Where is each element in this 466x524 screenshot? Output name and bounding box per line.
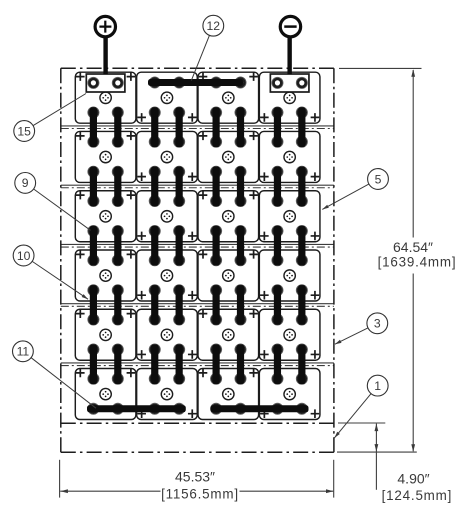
svg-text:9: 9 bbox=[22, 176, 29, 190]
svg-text:[1156.5mm]: [1156.5mm] bbox=[161, 486, 239, 501]
svg-text:[1639.4mm]: [1639.4mm] bbox=[378, 255, 457, 270]
svg-text:3: 3 bbox=[374, 317, 381, 331]
inter-row connector straps rows 5-6 bbox=[90, 344, 306, 384]
battery cell B18 bbox=[137, 309, 198, 360]
dimension 4.90 in base height bbox=[337, 423, 452, 503]
callout balloon 10 bbox=[13, 245, 88, 299]
rack base divider bbox=[61, 422, 334, 424]
positive terminal plate bbox=[86, 74, 125, 92]
callout balloon 1 bbox=[334, 375, 388, 438]
svg-text:64.54″: 64.54″ bbox=[393, 239, 433, 255]
battery cell B14 bbox=[137, 250, 198, 301]
battery cell B4 bbox=[259, 72, 320, 123]
svg-text:11: 11 bbox=[17, 345, 30, 359]
rack outline (phantom line) bbox=[61, 68, 334, 452]
battery cell B11 bbox=[198, 191, 259, 242]
battery cell B8 bbox=[259, 131, 320, 182]
shelf rail S3 bbox=[61, 244, 334, 247]
inter-row connector straps rows 1-2 bbox=[90, 107, 306, 147]
top inter-cell strap B2-B3 bbox=[148, 79, 243, 86]
battery cell B10 bbox=[137, 191, 198, 242]
battery cell B13 bbox=[75, 250, 136, 301]
battery cell B5 bbox=[75, 131, 136, 182]
svg-text:5: 5 bbox=[375, 172, 382, 186]
negative terminal symbol bbox=[280, 16, 300, 36]
callout balloon 11 bbox=[13, 341, 97, 408]
callout balloon 5 bbox=[322, 169, 388, 210]
battery cell B21 bbox=[75, 369, 136, 420]
bottom inter-cell strap B21-B22 bbox=[87, 405, 186, 412]
battery cell B22 bbox=[137, 369, 198, 420]
svg-text:4.90″: 4.90″ bbox=[397, 471, 429, 487]
battery cell B16 bbox=[259, 250, 320, 301]
callout balloon 9 bbox=[15, 173, 91, 231]
battery cell B1 bbox=[75, 72, 136, 123]
callout balloon 12 bbox=[191, 15, 223, 80]
inter-row connector straps rows 3-4 bbox=[90, 226, 306, 266]
shelf rail S2 bbox=[61, 185, 334, 188]
dimension 45.53 in width bbox=[60, 460, 334, 502]
shelf rail S1 bbox=[61, 126, 334, 129]
battery cell B23 bbox=[198, 369, 259, 420]
shelf rail S5 bbox=[61, 363, 334, 366]
battery cell B12 bbox=[259, 191, 320, 242]
svg-text:10: 10 bbox=[17, 249, 31, 263]
svg-text:1: 1 bbox=[374, 379, 381, 393]
battery cell B2 bbox=[137, 72, 198, 123]
bottom inter-cell strap B23-B24 bbox=[211, 405, 309, 412]
svg-text:45.53″: 45.53″ bbox=[175, 469, 215, 485]
battery cell B24 bbox=[259, 369, 320, 420]
positive terminal symbol bbox=[95, 16, 115, 36]
battery cell B15 bbox=[198, 250, 259, 301]
svg-text:12: 12 bbox=[207, 19, 221, 33]
negative cable bbox=[287, 37, 291, 75]
battery cell B3 bbox=[198, 72, 259, 123]
inter-row connector straps rows 4-5 bbox=[90, 285, 306, 325]
shelf rail S4 bbox=[61, 304, 334, 307]
callout balloon 3 bbox=[335, 313, 388, 344]
battery cell B17 bbox=[75, 309, 136, 360]
battery cell B6 bbox=[137, 131, 198, 182]
battery cell B9 bbox=[75, 191, 136, 242]
dimension 64.54 in height bbox=[339, 68, 456, 451]
inter-row connector straps rows 2-3 bbox=[90, 167, 306, 207]
positive cable bbox=[103, 37, 107, 75]
negative terminal plate bbox=[270, 74, 309, 92]
svg-text:[124.5mm]: [124.5mm] bbox=[382, 488, 452, 503]
battery cell B19 bbox=[198, 309, 259, 360]
callout balloon 15 bbox=[14, 94, 86, 142]
svg-text:15: 15 bbox=[17, 124, 31, 138]
battery cell B20 bbox=[259, 309, 320, 360]
battery cell B7 bbox=[198, 131, 259, 182]
